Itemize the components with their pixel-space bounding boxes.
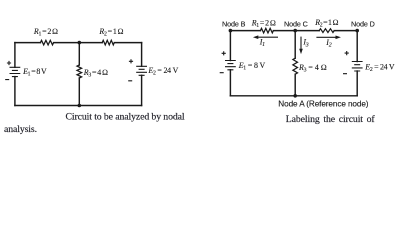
svg-text:I3: I3 bbox=[302, 38, 308, 49]
svg-text:R2=1Ω: R2=1Ω bbox=[314, 18, 338, 29]
svg-text:E1=8V: E1=8V bbox=[22, 67, 47, 78]
svg-text:E2=24V: E2=24V bbox=[364, 62, 395, 73]
svg-text:R3=4Ω: R3=4Ω bbox=[83, 68, 108, 79]
svg-text:Labeling the circuit of: Labeling the circuit of bbox=[286, 114, 376, 125]
svg-text:R1=2Ω: R1=2Ω bbox=[251, 18, 276, 29]
svg-text:E1=8V: E1=8V bbox=[238, 61, 266, 72]
svg-text:I1: I1 bbox=[259, 38, 265, 49]
svg-text:analysis.: analysis. bbox=[4, 124, 37, 135]
svg-text:E2=24V: E2=24V bbox=[147, 66, 178, 77]
svg-text:R2=1Ω: R2=1Ω bbox=[98, 27, 123, 38]
svg-text:Node A (Reference node): Node A (Reference node) bbox=[278, 99, 368, 108]
svg-text:Node C: Node C bbox=[284, 19, 308, 28]
svg-text:Node D: Node D bbox=[351, 19, 375, 28]
svg-text:Circuit to be analyzed by noda: Circuit to be analyzed by nodal bbox=[66, 112, 185, 123]
svg-text:Node B: Node B bbox=[222, 19, 246, 28]
svg-text:R1=2Ω: R1=2Ω bbox=[33, 27, 58, 38]
svg-text:I2: I2 bbox=[325, 38, 331, 49]
svg-text:R3=4Ω: R3=4Ω bbox=[298, 63, 327, 74]
